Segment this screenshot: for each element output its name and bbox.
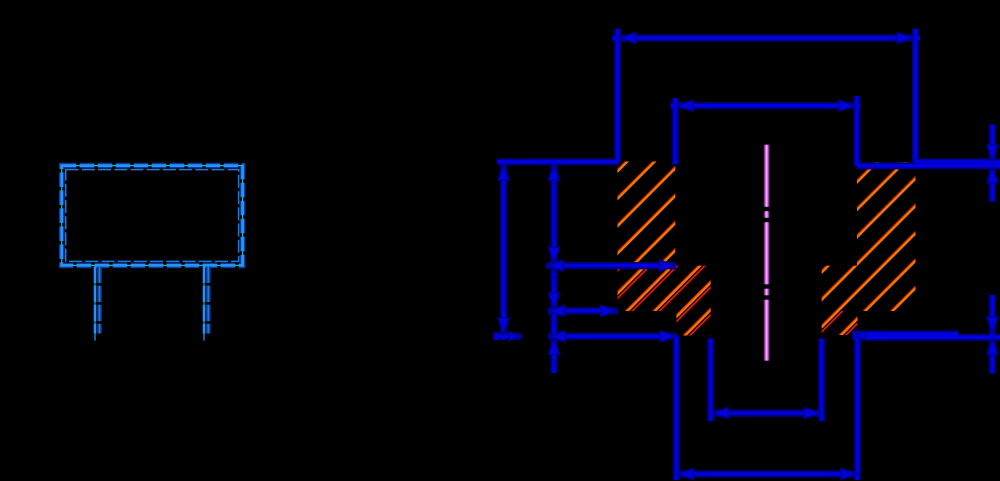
extension line: tube bore left, vertical bbox=[709, 339, 712, 422]
arrowhead: step ext, right bbox=[601, 306, 617, 317]
hatching: left lower block, bright red offset lines bbox=[326, 90, 963, 480]
extension line: bottom face left stub + tick bbox=[496, 333, 522, 341]
dimension line: right top lip (far right) bbox=[991, 125, 994, 202]
arrowhead: stacked dim, top bbox=[549, 164, 560, 180]
extension line: top face right upper bbox=[916, 160, 1000, 163]
extension line: flange bottom step bbox=[548, 309, 618, 312]
dimension line: counterbore diameter bbox=[671, 104, 861, 107]
extension line: bottom face right lower bbox=[853, 336, 1000, 339]
arrowhead: counterbore dim, left bbox=[677, 100, 693, 111]
arrowhead: bottom-face ext, right bbox=[660, 331, 676, 342]
arrowhead: stacked dim below bottom face bbox=[549, 338, 560, 354]
extension line: counterbore left, vertical bbox=[674, 98, 677, 165]
arrowhead: counterbore-bottom ext, right bbox=[660, 260, 676, 271]
arrowhead: counterbore-bottom ext, left bbox=[547, 260, 563, 271]
hatching: left lower block, red fringes bbox=[322, 88, 959, 478]
dimension line: overall height (far left) bbox=[502, 162, 505, 339]
arrowhead: overall-height dim, bottom bbox=[498, 318, 509, 334]
hatching: right material section, red fringes bbox=[532, 88, 1000, 478]
hatching: right material section, orange lines bbox=[532, 90, 1000, 480]
arrowhead: tube OD dim, right bbox=[841, 469, 857, 480]
centerline of bore (magenta dash-dot) bbox=[764, 145, 770, 361]
extension line: part top face, left side bbox=[497, 160, 619, 163]
hatching: left lower block, orange lines bbox=[322, 90, 959, 480]
arrowhead: stacked dim at step bbox=[549, 293, 560, 309]
hatching: left flange upper block, orange lines bbox=[309, 90, 836, 480]
arrowhead: right bottom lip dim, upper bbox=[987, 317, 998, 333]
arrowhead: tube OD dim, left bbox=[677, 469, 693, 480]
dimension line: tube inside diameter (bottom) bbox=[711, 411, 822, 414]
extension line: top face right lower bbox=[857, 164, 1000, 167]
dimension line: stacked depths (left) bbox=[552, 162, 555, 373]
arrowhead: stacked dim at counterbore bottom bbox=[549, 248, 560, 264]
left leg (hidden dashed lines) bbox=[95, 267, 100, 341]
arrowhead: flange OD dim, left bbox=[620, 33, 636, 44]
extension line: flange OD left, vertical bbox=[616, 29, 619, 162]
arrowhead: overall-height dim, top bbox=[498, 164, 509, 180]
hatching: right lower block, bright red offset lines bbox=[537, 90, 1000, 480]
extension line: tube OD left, vertical bbox=[675, 336, 678, 480]
hatching: left flange upper block, red fringes bbox=[309, 88, 836, 478]
dimension line: tube outside diameter (bottom) bbox=[676, 472, 857, 475]
arrowhead: tube ID dim, right bbox=[804, 408, 820, 419]
extension line: bottom face right upper bbox=[853, 332, 959, 335]
arrowhead: flange OD dim, right bbox=[897, 33, 913, 44]
arrowhead: counterbore dim, right bbox=[839, 100, 855, 111]
dimension line: right bottom lip (far right) bbox=[991, 295, 994, 374]
arrowhead: right bottom lip dim, lower bbox=[987, 338, 998, 354]
extension line: tube OD right, vertical bbox=[856, 334, 859, 480]
arrowhead: bottom-face ext, left bbox=[549, 331, 565, 342]
dimension line: flange outside diameter (top) bbox=[613, 36, 921, 39]
arrowhead: bottom-face stub, right bbox=[509, 332, 522, 340]
extension line: bottom face left of tube bbox=[549, 335, 678, 338]
right leg (hidden dashed lines) bbox=[204, 267, 208, 341]
arrowhead: right top lip dim, upper bbox=[987, 145, 998, 161]
extension line: tube bore right, vertical bbox=[820, 339, 823, 422]
arrowhead: stacked dim below counterbore bottom bbox=[551, 267, 557, 277]
dimension network halo (dark blue under-stroke) bbox=[496, 29, 1000, 480]
arrowhead: tube ID dim, left bbox=[712, 408, 728, 419]
extension line: counterbore bottom face bbox=[547, 264, 677, 267]
arrowhead: bottom-face right ext, left bbox=[853, 332, 865, 340]
hidden outline box: teal joint dots layer bbox=[62, 166, 243, 266]
extension line: flange OD right, vertical bbox=[914, 29, 917, 162]
hidden outline box (left figure), dark halo bbox=[62, 166, 243, 266]
arrowhead: step ext, left bbox=[548, 306, 564, 317]
hidden outline box: outer bright dashed rectangle bbox=[62, 166, 243, 266]
extension line: counterbore right, vertical bbox=[855, 96, 858, 166]
hidden outline box: inner thin dashed rectangle bbox=[66, 170, 239, 262]
arrowhead: right top lip dim, lower bbox=[987, 167, 998, 183]
